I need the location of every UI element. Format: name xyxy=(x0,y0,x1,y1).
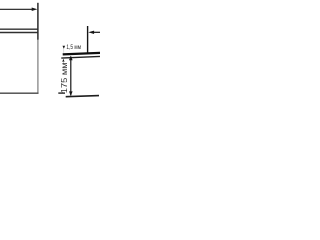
svg-text:175 мм: 175 мм xyxy=(59,62,69,93)
svg-text:1,5 мм: 1,5 мм xyxy=(66,45,81,51)
